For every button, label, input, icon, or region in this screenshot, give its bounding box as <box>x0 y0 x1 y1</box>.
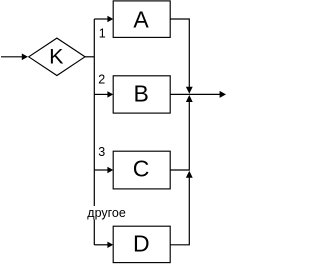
wire A output <box>170 19 189 87</box>
arrowhead A merge down <box>186 87 193 94</box>
block C <box>113 151 170 189</box>
svg-text:D: D <box>133 230 150 256</box>
arrowhead into D <box>107 242 113 248</box>
svg-text:A: A <box>133 6 149 32</box>
wire K to trunk <box>85 56 94 58</box>
wire trunk vertical <box>93 19 95 245</box>
block B <box>113 76 170 113</box>
wire D output <box>170 178 189 245</box>
arrowhead into A <box>107 16 113 22</box>
wire input to K <box>1 56 22 58</box>
arrowhead into C <box>107 167 113 173</box>
wire branch 1 to A <box>94 18 107 20</box>
arrowhead into B <box>107 91 113 97</box>
decision diamond K <box>29 38 85 75</box>
svg-text:2: 2 <box>98 73 105 87</box>
svg-text:B: B <box>134 81 149 107</box>
svg-text:1: 1 <box>99 26 106 40</box>
wire branch 3 to C <box>94 169 107 171</box>
arrowhead C merge up <box>186 95 193 102</box>
wire B output to exit <box>170 93 220 95</box>
svg-text:K: K <box>49 44 64 68</box>
svg-text:другое: другое <box>87 206 126 220</box>
label другое <box>87 206 125 219</box>
wire branch to D <box>94 244 107 246</box>
block D <box>113 226 170 262</box>
svg-text:3: 3 <box>98 145 105 159</box>
arrowhead into K <box>22 54 28 61</box>
arrowhead exit <box>220 91 226 98</box>
wire C output <box>170 102 189 170</box>
wire branch 2 to B <box>94 93 107 95</box>
block A <box>113 1 170 38</box>
arrowhead D merge up <box>186 171 193 178</box>
svg-text:C: C <box>133 156 150 182</box>
